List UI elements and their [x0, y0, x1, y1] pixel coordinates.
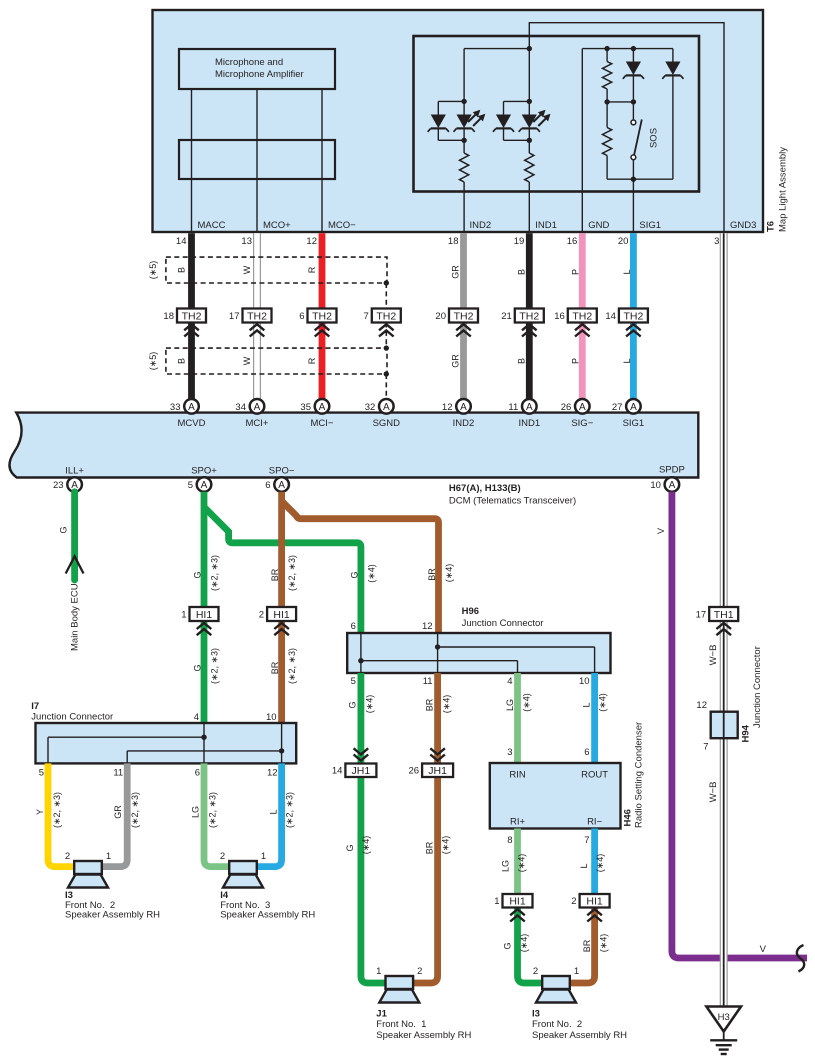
- svg-text:R: R: [307, 266, 317, 273]
- svg-text:20: 20: [618, 236, 629, 247]
- H46 pin numbers top: [507, 747, 589, 758]
- node 34 MCI+: [235, 399, 264, 414]
- svg-text:14: 14: [332, 765, 343, 776]
- svg-text:RI−: RI−: [587, 817, 603, 828]
- svg-text:(∗2, ∗3): (∗2, ∗3): [208, 792, 218, 828]
- svg-text:Main Body ECU: Main Body ECU: [70, 583, 81, 651]
- svg-text:19: 19: [514, 236, 525, 247]
- svg-text:(∗4): (∗4): [361, 836, 371, 855]
- wire rail between LED pairs: [464, 48, 529, 50]
- H96 pin numbers top: [351, 621, 433, 632]
- I7 pin numbers bottom: [39, 768, 278, 779]
- svg-text:Junction Connector: Junction Connector: [31, 712, 113, 723]
- labels G (*4) below HI1: [503, 934, 529, 953]
- svg-text:14: 14: [176, 236, 187, 247]
- speaker I3 bottom front no.2: [533, 966, 579, 1003]
- continuation squiggle on V wire: [797, 945, 804, 972]
- svg-text:Map Light Assembly: Map Light Assembly: [778, 147, 789, 232]
- wire G from ILL+ to Main Body ECU: [71, 492, 78, 580]
- connector 2 HI1 upper: [259, 607, 296, 635]
- connector 1 HI1 upper: [181, 607, 218, 635]
- svg-text:I7: I7: [31, 701, 39, 712]
- svg-text:(∗2, ∗3): (∗2, ∗3): [210, 555, 220, 591]
- svg-text:B: B: [516, 358, 526, 364]
- wire BR SPO- down to I7: [278, 492, 285, 723]
- svg-text:35: 35: [300, 402, 311, 413]
- wire L from I7 to speaker I4: [257, 763, 282, 866]
- svg-text:B: B: [177, 358, 187, 364]
- svg-text:G: G: [59, 526, 69, 533]
- wire V from SPDP: [672, 492, 807, 958]
- svg-text:IND2: IND2: [453, 418, 475, 429]
- svg-text:W: W: [242, 265, 252, 274]
- svg-text:GR: GR: [451, 354, 461, 368]
- svg-text:MCI−: MCI−: [311, 418, 334, 429]
- svg-text:5: 5: [351, 676, 356, 687]
- svg-text:H3: H3: [718, 1012, 730, 1023]
- wire BR from HI1 to speaker I3 bottom: [570, 908, 595, 984]
- svg-text:TH2: TH2: [312, 310, 332, 322]
- I7 internal wiring: [48, 723, 284, 763]
- connector 20 TH2: [435, 309, 478, 337]
- LED circuit inner box: [414, 36, 700, 192]
- svg-text:BR: BR: [427, 568, 437, 581]
- speaker I4 labels: [220, 890, 315, 921]
- label W-B upper: [708, 645, 719, 666]
- svg-text:TH2: TH2: [519, 310, 539, 322]
- shield box upper (*5): [166, 257, 387, 283]
- svg-text:SPO−: SPO−: [269, 466, 295, 477]
- labels L (*4) at HI1 lower: [579, 854, 605, 873]
- svg-text:ROUT: ROUT: [581, 770, 608, 781]
- svg-text:G: G: [193, 571, 203, 578]
- svg-text:I3: I3: [532, 1009, 540, 1020]
- svg-text:27: 27: [612, 402, 623, 413]
- svg-text:L: L: [622, 358, 632, 363]
- label (*5) upper: [148, 261, 158, 280]
- wire MCO+ inside T6: [256, 89, 258, 233]
- svg-text:B: B: [177, 267, 187, 273]
- svg-text:2: 2: [571, 896, 576, 907]
- svg-text:IND1: IND1: [518, 418, 540, 429]
- labels LG (*4) at HI1 lower: [500, 854, 526, 873]
- svg-text:DCM (Telematics Transceiver): DCM (Telematics Transceiver): [449, 496, 576, 507]
- svg-text:7: 7: [364, 311, 369, 322]
- labels G (*4) above JH1: [347, 695, 374, 714]
- connector 17 TH2: [229, 309, 272, 337]
- svg-text:(∗4): (∗4): [441, 836, 451, 855]
- label V horizontal: [760, 944, 767, 955]
- svg-text:1: 1: [574, 966, 579, 977]
- LED D1 pair with resistor (IND2 branch): [428, 49, 486, 233]
- svg-text:10: 10: [579, 676, 590, 687]
- wire GR from IND2: [460, 233, 467, 399]
- speaker I3 bottom labels: [532, 1009, 627, 1042]
- svg-text:LG: LG: [191, 806, 201, 818]
- svg-text:5: 5: [188, 480, 193, 491]
- labels BR (*2,*3) at HI1 upper: [270, 555, 297, 591]
- svg-text:A: A: [319, 402, 326, 413]
- svg-text:A: A: [579, 402, 586, 413]
- svg-text:A: A: [188, 402, 195, 413]
- svg-text:GND3: GND3: [730, 220, 756, 231]
- svg-text:Junction Connector: Junction Connector: [462, 618, 544, 629]
- label (*5) lower: [148, 352, 158, 371]
- connector 6 TH2: [299, 309, 336, 337]
- wire G SPO+ branch to H96: [204, 507, 361, 633]
- labels G (*2,*3) below HI1: [193, 648, 220, 684]
- svg-text:6: 6: [351, 621, 356, 632]
- svg-text:2: 2: [65, 851, 70, 862]
- svg-text:(∗2, ∗3): (∗2, ∗3): [52, 792, 62, 828]
- radio setting condenser H46: [490, 763, 621, 829]
- junction connector H96: [347, 633, 610, 673]
- svg-text:17: 17: [696, 609, 707, 620]
- svg-text:(∗4): (∗4): [598, 934, 608, 953]
- labels BR (*4) at JH1: [424, 836, 450, 855]
- H94 name label: [740, 646, 763, 742]
- DCM name label: [449, 483, 576, 507]
- svg-text:W−B: W−B: [708, 645, 719, 666]
- svg-text:Speaker Assembly RH: Speaker Assembly RH: [532, 1030, 627, 1041]
- svg-text:1: 1: [181, 609, 186, 620]
- wire G SPO+ down to I7: [201, 492, 208, 723]
- H94 pin 12: [696, 700, 707, 711]
- wire GND3 runner: [529, 23, 724, 233]
- map light assembly T6 outer box: [153, 10, 764, 232]
- svg-text:23: 23: [53, 480, 64, 491]
- svg-text:7: 7: [584, 835, 589, 846]
- svg-text:LG: LG: [500, 860, 510, 872]
- svg-text:G: G: [193, 664, 203, 671]
- wire MCO- inside T6: [321, 89, 323, 233]
- svg-text:TH2: TH2: [454, 310, 474, 322]
- I7 name label: [31, 701, 113, 723]
- svg-text:Speaker Assembly RH: Speaker Assembly RH: [65, 910, 160, 921]
- svg-text:3: 3: [714, 236, 719, 247]
- svg-text:TH2: TH2: [376, 310, 396, 322]
- svg-text:Microphone and: Microphone and: [215, 57, 283, 68]
- node 12 IND2: [442, 399, 471, 414]
- wire L from H46 to HI1: [591, 829, 598, 895]
- svg-text:(∗2, ∗3): (∗2, ∗3): [130, 792, 140, 828]
- svg-text:(∗4): (∗4): [444, 564, 454, 583]
- svg-text:G: G: [345, 844, 355, 851]
- svg-text:GND: GND: [588, 220, 609, 231]
- svg-text:Front No. 1: Front No. 1: [376, 1019, 426, 1030]
- speaker J1 front no.1: [376, 966, 422, 1003]
- node 10 SPDP: [650, 477, 679, 492]
- svg-text:HI1: HI1: [273, 609, 290, 621]
- terminal labels on T6: [198, 220, 757, 231]
- pin numbers on T6: [176, 236, 719, 247]
- svg-text:L: L: [622, 269, 632, 274]
- svg-text:Y: Y: [35, 809, 45, 815]
- svg-text:TH2: TH2: [182, 310, 202, 322]
- svg-text:HI1: HI1: [196, 609, 213, 621]
- svg-text:SIG−: SIG−: [571, 418, 593, 429]
- svg-text:12: 12: [696, 700, 707, 711]
- junction connector I7: [36, 723, 297, 763]
- svg-text:20: 20: [435, 311, 446, 322]
- svg-text:12: 12: [267, 768, 278, 779]
- svg-text:12: 12: [306, 236, 317, 247]
- svg-text:16: 16: [554, 311, 565, 322]
- svg-text:SGND: SGND: [373, 418, 401, 429]
- wire colour labels upper row: [177, 265, 632, 279]
- svg-text:33: 33: [170, 402, 181, 413]
- wire Y from I7 to speaker I3: [48, 763, 75, 866]
- shield drain wire SGND dashed: [384, 280, 389, 399]
- LED D2 pair with resistor (IND1 branch): [493, 49, 551, 233]
- svg-text:A: A: [201, 480, 208, 491]
- H96 internal wiring: [358, 633, 594, 673]
- wire LG from H46 to HI1: [514, 829, 521, 895]
- svg-text:A: A: [254, 402, 261, 413]
- svg-text:32: 32: [365, 402, 376, 413]
- svg-text:2: 2: [533, 966, 538, 977]
- wire P from GND: [579, 233, 586, 399]
- T6 label: [766, 221, 777, 232]
- svg-text:MCVD: MCVD: [178, 418, 206, 429]
- labels BR (*4) above JH1: [424, 695, 451, 714]
- wire LG from H96 to H46: [514, 673, 521, 763]
- wire colour labels lower row: [177, 354, 632, 368]
- svg-text:A: A: [278, 480, 285, 491]
- svg-text:6: 6: [584, 747, 589, 758]
- svg-text:1: 1: [106, 851, 111, 862]
- node 32 SGND: [365, 399, 394, 414]
- svg-text:W−B: W−B: [708, 782, 719, 803]
- svg-text:IND2: IND2: [470, 220, 492, 231]
- svg-text:Speaker Assembly RH: Speaker Assembly RH: [220, 910, 315, 921]
- svg-text:GR: GR: [451, 265, 461, 279]
- svg-text:26: 26: [409, 765, 420, 776]
- svg-text:6: 6: [299, 311, 304, 322]
- svg-text:HI1: HI1: [509, 895, 526, 907]
- label W-B lower: [708, 782, 719, 803]
- svg-text:P: P: [570, 358, 580, 364]
- wire B from MACC: [188, 233, 195, 399]
- svg-text:(∗2, ∗3): (∗2, ∗3): [285, 792, 295, 828]
- wire L from H96 to H46: [591, 673, 598, 763]
- node 23 ILL+: [53, 477, 82, 492]
- ground symbol: [710, 1032, 737, 1055]
- svg-text:6: 6: [195, 768, 200, 779]
- svg-text:IND1: IND1: [535, 220, 557, 231]
- I7 pin numbers top: [194, 712, 277, 723]
- SOS label: [649, 128, 660, 148]
- svg-text:Front No. 2: Front No. 2: [532, 1019, 582, 1030]
- svg-text:14: 14: [605, 311, 616, 322]
- junction connector H94: [711, 712, 738, 739]
- wire BR from H96 to speaker J1: [413, 673, 438, 983]
- node 11 IND1: [508, 399, 536, 414]
- svg-text:(∗2, ∗3): (∗2, ∗3): [287, 555, 297, 591]
- svg-text:(∗4): (∗4): [365, 695, 375, 714]
- svg-text:TH2: TH2: [247, 310, 267, 322]
- svg-text:10: 10: [650, 480, 661, 491]
- connector 14 JH1: [332, 748, 377, 777]
- H46 pin numbers bottom: [507, 835, 589, 846]
- wire G from H96 to speaker J1: [361, 673, 386, 983]
- wire BR SPO- branch to H96: [282, 501, 439, 633]
- connector 14 TH2: [605, 309, 648, 337]
- svg-text:V: V: [656, 528, 666, 534]
- svg-text:P: P: [570, 269, 580, 275]
- svg-text:A: A: [630, 402, 637, 413]
- svg-text:ILL+: ILL+: [65, 466, 84, 477]
- svg-text:(∗5): (∗5): [148, 261, 158, 280]
- svg-text:1: 1: [376, 966, 381, 977]
- svg-text:16: 16: [567, 236, 578, 247]
- svg-text:A: A: [383, 402, 390, 413]
- svg-text:B: B: [516, 269, 526, 275]
- wire W from MCO+: [254, 233, 261, 399]
- svg-text:(∗4): (∗4): [522, 693, 532, 712]
- connector 16 TH2: [554, 309, 597, 337]
- connector 26 JH1: [409, 748, 454, 777]
- microphone and microphone amplifier box: [179, 49, 335, 89]
- svg-text:BR: BR: [424, 841, 434, 854]
- node 26 SIG-: [561, 399, 590, 414]
- H96 pin numbers bottom: [351, 676, 590, 687]
- svg-text:H67(A), H133(B): H67(A), H133(B): [449, 483, 521, 494]
- svg-text:SPDP: SPDP: [659, 465, 685, 476]
- node on IND1 line: [527, 46, 532, 51]
- node 33 MCVD: [170, 399, 199, 414]
- svg-text:A: A: [526, 402, 533, 413]
- svg-text:MCO−: MCO−: [328, 220, 356, 231]
- svg-text:2: 2: [220, 851, 225, 862]
- svg-text:(∗4): (∗4): [366, 564, 376, 583]
- H46 name label: [622, 722, 644, 828]
- svg-text:JH1: JH1: [428, 765, 447, 777]
- svg-text:H96: H96: [462, 606, 479, 617]
- svg-text:21: 21: [501, 311, 512, 322]
- connector 18 TH2: [163, 309, 206, 337]
- Map Light Assembly label: [778, 147, 789, 232]
- labels L (*4) at H96: [582, 693, 608, 712]
- svg-text:(∗4): (∗4): [595, 854, 605, 873]
- svg-text:Microphone Amplifier: Microphone Amplifier: [215, 69, 304, 80]
- svg-text:J1: J1: [376, 1009, 387, 1020]
- labels LG (*2,*3): [191, 792, 218, 828]
- svg-text:TH2: TH2: [572, 310, 592, 322]
- svg-text:18: 18: [163, 311, 174, 322]
- svg-text:G: G: [347, 701, 357, 708]
- svg-text:L: L: [582, 702, 592, 707]
- svg-text:(∗4): (∗4): [598, 693, 608, 712]
- labels L (*2,*3): [269, 792, 295, 828]
- label V vertical: [656, 528, 666, 534]
- svg-text:SIG1: SIG1: [623, 418, 645, 429]
- svg-text:HI1: HI1: [586, 895, 603, 907]
- ground H3: [706, 1007, 741, 1032]
- svg-text:(∗4): (∗4): [442, 695, 452, 714]
- wire W-B from GND3 to ground: [720, 233, 727, 1006]
- svg-text:12: 12: [422, 621, 433, 632]
- svg-text:10: 10: [266, 712, 277, 723]
- svg-text:H46: H46: [622, 809, 633, 826]
- wire LG from I7 to speaker I4: [204, 763, 229, 866]
- svg-text:(∗2, ∗3): (∗2, ∗3): [210, 648, 220, 684]
- connector 21 TH2: [501, 309, 544, 337]
- svg-text:1: 1: [261, 851, 266, 862]
- node 6 SPO-: [265, 477, 289, 492]
- connector 7 TH2: [364, 309, 401, 337]
- speaker I3 labels: [65, 890, 160, 921]
- svg-text:BR: BR: [582, 939, 592, 952]
- labels G (*4) at JH1: [345, 836, 371, 855]
- wire MACC inside T6: [191, 89, 193, 233]
- H46 terminal labels: [509, 770, 608, 828]
- svg-text:34: 34: [235, 402, 246, 413]
- wire G from HI1 to speaker I3 bottom: [518, 908, 543, 984]
- svg-text:R: R: [307, 357, 317, 364]
- svg-text:SIG1: SIG1: [639, 220, 661, 231]
- svg-text:11: 11: [508, 402, 518, 413]
- svg-text:4: 4: [194, 712, 199, 723]
- svg-text:18: 18: [448, 236, 459, 247]
- svg-text:Radio Setting Condenser: Radio Setting Condenser: [634, 722, 645, 828]
- H96 name label: [462, 606, 544, 629]
- svg-text:MCI+: MCI+: [246, 418, 269, 429]
- svg-text:(∗5): (∗5): [148, 352, 158, 371]
- labels G (*4) branch: [349, 564, 376, 583]
- svg-text:(∗4): (∗4): [519, 934, 529, 953]
- labels Y (*2,*3): [35, 792, 62, 828]
- band terminal labels top: [178, 418, 645, 429]
- labels BR (*4) branch: [427, 564, 454, 583]
- arrow to Main Body ECU: [66, 556, 84, 573]
- speaker J1 labels: [376, 1009, 471, 1042]
- svg-text:TH1: TH1: [714, 609, 734, 621]
- DCM telematics transceiver band H67/H133: [10, 413, 699, 478]
- svg-text:5: 5: [39, 768, 44, 779]
- svg-text:GR: GR: [113, 805, 123, 819]
- svg-text:MACC: MACC: [198, 220, 226, 231]
- connector 1 HI1 lower: [494, 894, 532, 922]
- svg-text:H94: H94: [740, 724, 751, 742]
- band terminal labels bottom: [65, 465, 685, 477]
- svg-text:T6: T6: [766, 221, 777, 232]
- svg-text:11: 11: [423, 676, 433, 687]
- SOS switch circuit: [582, 46, 683, 233]
- labels GR (*2,*3): [113, 792, 140, 828]
- H94 pin 7: [703, 742, 708, 753]
- wire L from SIG1: [630, 233, 637, 399]
- svg-text:MCO+: MCO+: [263, 220, 291, 231]
- svg-text:BR: BR: [270, 661, 280, 674]
- svg-text:26: 26: [561, 402, 572, 413]
- svg-text:Speaker Assembly RH: Speaker Assembly RH: [376, 1030, 471, 1041]
- svg-text:13: 13: [241, 236, 252, 247]
- empty amplifier box: [179, 140, 335, 179]
- wire GR from I7 to speaker I3: [102, 763, 128, 866]
- speaker I3 front no.2: [65, 851, 111, 888]
- svg-text:JH1: JH1: [352, 765, 371, 777]
- svg-text:2: 2: [417, 966, 422, 977]
- svg-text:A: A: [460, 402, 467, 413]
- speaker I4 front no.3: [220, 851, 266, 888]
- connector 2 HI1 lower: [571, 894, 609, 922]
- svg-text:A: A: [669, 480, 676, 491]
- svg-text:3: 3: [507, 747, 512, 758]
- svg-text:SOS: SOS: [649, 128, 660, 148]
- svg-text:1: 1: [494, 896, 499, 907]
- svg-text:LG: LG: [505, 699, 515, 711]
